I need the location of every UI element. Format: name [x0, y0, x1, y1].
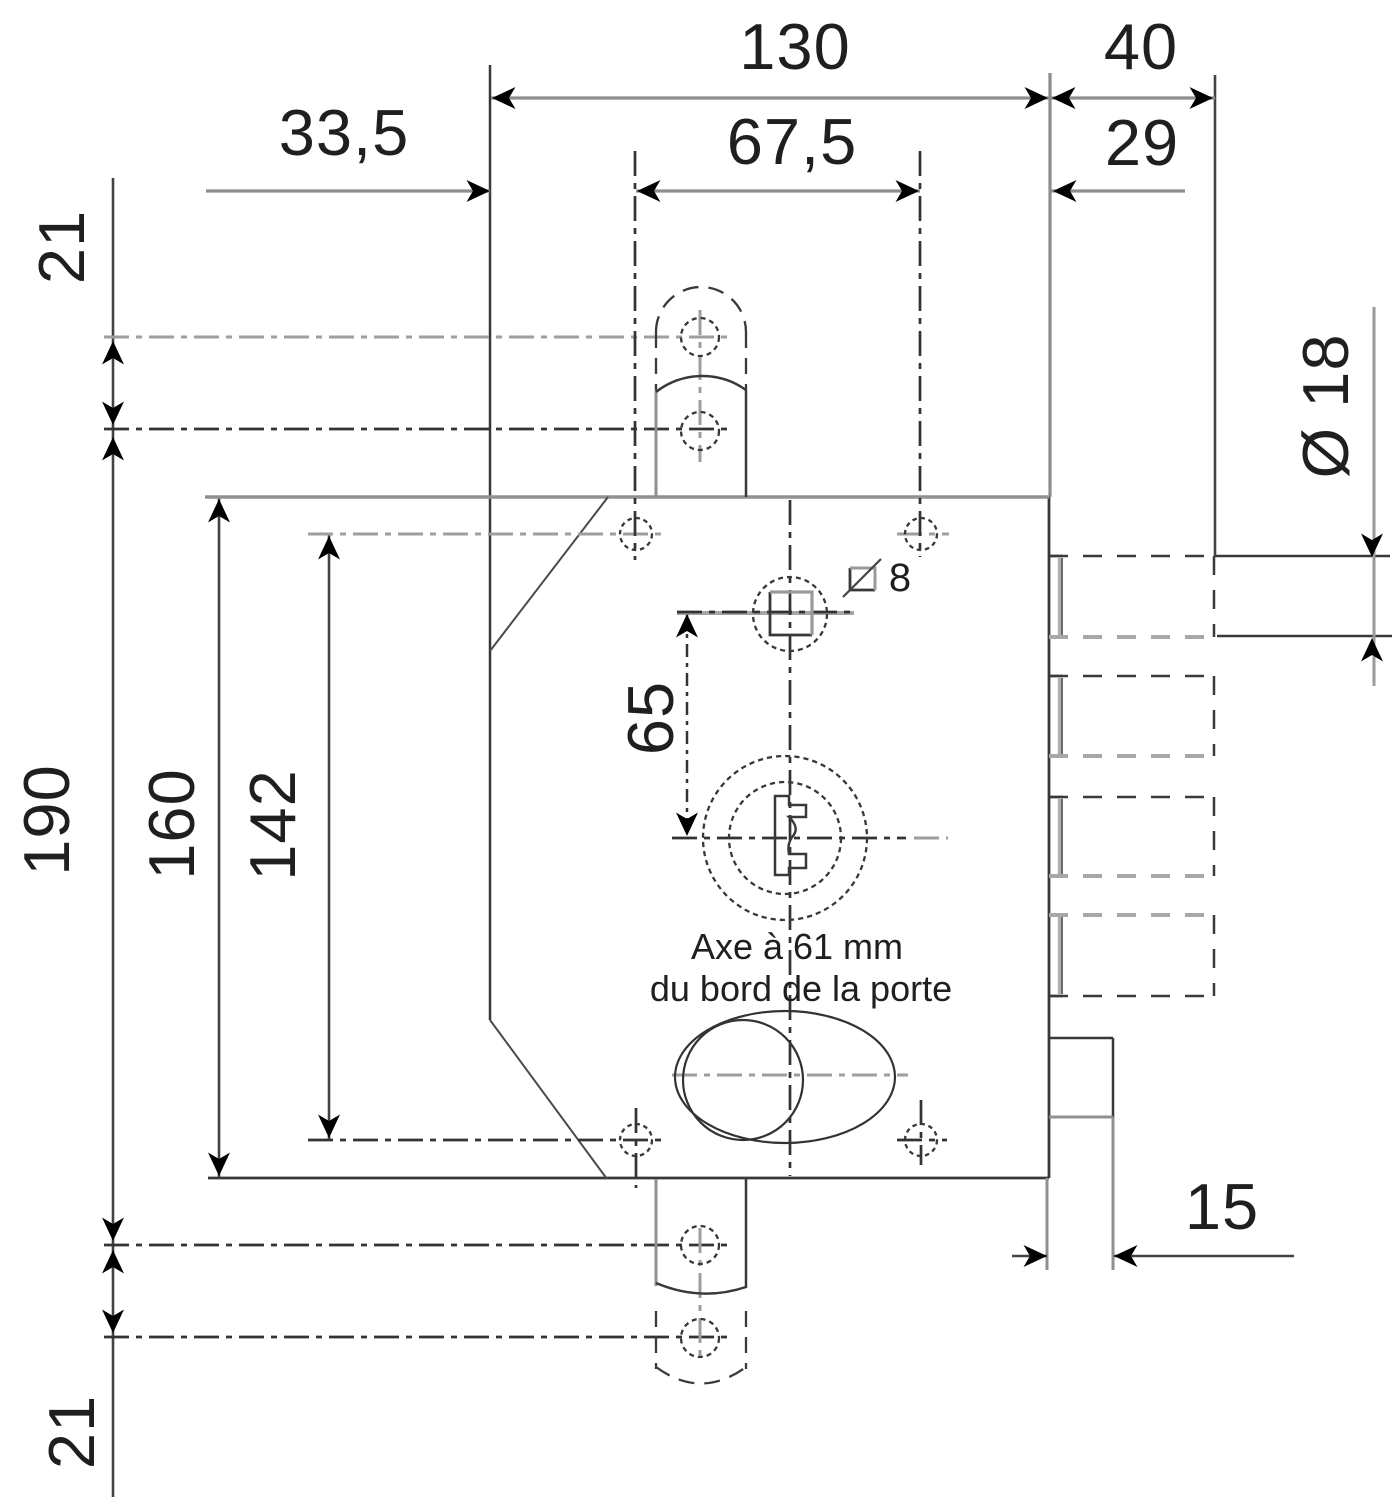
- svg-text:21: 21: [25, 210, 98, 284]
- svg-text:130: 130: [739, 10, 850, 83]
- svg-text:8: 8: [889, 556, 911, 600]
- svg-text:67,5: 67,5: [727, 105, 858, 178]
- svg-text:21: 21: [35, 1395, 108, 1469]
- svg-text:142: 142: [236, 769, 309, 880]
- svg-text:190: 190: [10, 764, 83, 875]
- svg-text:15: 15: [1185, 1170, 1259, 1243]
- svg-text:Axe à 61 mm: Axe à 61 mm: [691, 926, 903, 967]
- svg-text:160: 160: [135, 768, 208, 879]
- svg-text:65: 65: [614, 681, 687, 755]
- svg-text:33,5: 33,5: [279, 96, 410, 169]
- svg-text:29: 29: [1105, 106, 1179, 179]
- svg-text:Ø 18: Ø 18: [1289, 334, 1362, 479]
- svg-text:40: 40: [1104, 10, 1178, 83]
- svg-text:du bord de la porte: du bord de la porte: [650, 968, 952, 1009]
